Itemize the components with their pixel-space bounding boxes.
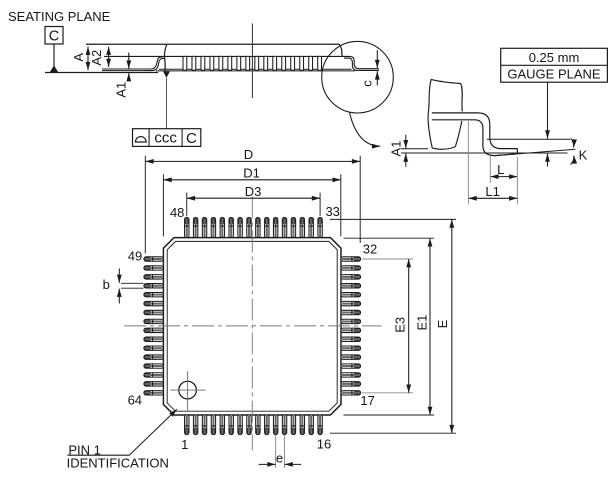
- top view centerlines: [124, 197, 382, 451]
- svg-text:C: C: [49, 29, 59, 45]
- side view body right outline: [339, 44, 342, 56]
- dimension E1: [344, 238, 435, 415]
- pin number 17: [360, 393, 374, 408]
- detail seating line: [401, 149, 568, 153]
- dimension D3: [187, 184, 320, 216]
- right pins 32-17: [341, 257, 361, 395]
- seating plane line: [45, 72, 158, 74]
- dimension L: [490, 156, 517, 205]
- left pins 49-64: [144, 257, 164, 395]
- dimension E3: [362, 259, 413, 393]
- dimension D: [145, 147, 360, 253]
- detail circle: [322, 41, 394, 113]
- svg-text:E1: E1: [414, 315, 429, 331]
- detail leader arc: [350, 113, 381, 147]
- svg-text:C: C: [186, 130, 197, 147]
- svg-text:D1: D1: [243, 166, 260, 181]
- gauge plane line: [487, 138, 570, 140]
- svg-text:L: L: [497, 162, 504, 177]
- dimension A1 detail: [388, 135, 406, 167]
- bottom pins 1-16: [185, 415, 323, 435]
- side view right lead: [343, 56, 379, 70]
- side view left gull-wing lead: [145, 57, 165, 71]
- svg-text:49: 49: [128, 248, 142, 263]
- svg-text:E: E: [435, 319, 450, 328]
- pin number 49: [128, 248, 142, 263]
- ccc C feature control frame: [133, 129, 201, 147]
- gauge plane box: [501, 48, 608, 82]
- svg-text:A2: A2: [89, 50, 104, 66]
- svg-text:A1: A1: [114, 82, 129, 98]
- svg-text:32: 32: [363, 241, 377, 256]
- dimension L1: [468, 121, 517, 205]
- svg-text:b: b: [103, 277, 110, 292]
- svg-text:D3: D3: [245, 184, 262, 199]
- dimension E: [330, 219, 456, 433]
- pin number 33: [325, 204, 339, 219]
- svg-text:K: K: [579, 147, 588, 162]
- svg-text:1: 1: [181, 437, 188, 452]
- side view centerline: [251, 24, 253, 99]
- gauge plane leader: [547, 82, 549, 166]
- pin number 16: [317, 436, 331, 451]
- svg-text:IDENTIFICATION: IDENTIFICATION: [67, 456, 169, 471]
- dimension c: [360, 50, 378, 87]
- top view body outline: [163, 238, 341, 415]
- dimension A: [71, 47, 88, 71]
- svg-text:c: c: [360, 80, 375, 87]
- svg-text:48: 48: [170, 205, 184, 220]
- side view lead comb: [183, 56, 322, 70]
- K line: [495, 149, 576, 156]
- svg-text:17: 17: [360, 393, 374, 408]
- pin number 48: [170, 205, 184, 220]
- dimension e: [259, 436, 302, 469]
- svg-text:SEATING PLANE: SEATING PLANE: [8, 9, 111, 24]
- dimension A1 side: [114, 53, 129, 98]
- datum triangle ccc leader: [163, 71, 170, 128]
- datum C symbol: [45, 27, 63, 73]
- svg-text:A1: A1: [388, 141, 403, 157]
- side view package top line: [86, 43, 340, 45]
- dimension b: [103, 269, 144, 304]
- svg-text:33: 33: [325, 204, 339, 219]
- top pins 48-33: [185, 217, 323, 237]
- svg-text:0.25 mm: 0.25 mm: [529, 50, 580, 65]
- pin number 32: [363, 241, 377, 256]
- svg-text:ccc: ccc: [154, 130, 177, 147]
- svg-text:D: D: [244, 147, 253, 162]
- svg-text:e: e: [276, 451, 283, 466]
- pin number 1: [181, 437, 188, 452]
- dimension D1: [163, 166, 340, 237]
- side view parting line: [104, 55, 342, 57]
- pin number 64: [128, 392, 142, 407]
- dimension A2: [89, 47, 109, 67]
- dimension K: [571, 138, 588, 164]
- side view lead bottom lines: [102, 69, 355, 71]
- detail lead: [432, 113, 518, 156]
- seating plane label: [8, 9, 111, 24]
- side view body left outline: [164, 44, 166, 71]
- svg-text:64: 64: [128, 392, 142, 407]
- detail body blob: [428, 79, 462, 149]
- svg-text:L1: L1: [485, 184, 499, 199]
- svg-text:E3: E3: [393, 317, 408, 333]
- svg-text:GAUGE PLANE: GAUGE PLANE: [507, 67, 601, 82]
- pin 1 identification circle: [170, 371, 205, 410]
- svg-text:A: A: [71, 53, 86, 62]
- pin 1 identification label: [67, 409, 177, 470]
- svg-text:16: 16: [317, 436, 331, 451]
